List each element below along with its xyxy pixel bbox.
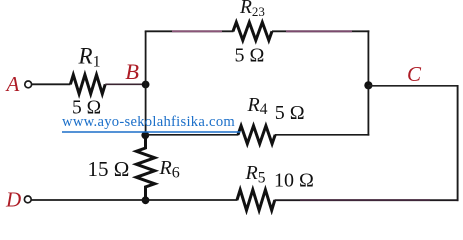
wire tint segment bbox=[286, 30, 352, 32]
watermark underline bbox=[62, 131, 241, 133]
svg-text:C: C bbox=[407, 62, 422, 86]
resistor R5 bbox=[237, 190, 275, 211]
svg-text:D: D bbox=[5, 187, 21, 211]
wire right corner down to C bbox=[367, 30, 369, 85]
svg-text:10 Ω: 10 Ω bbox=[274, 170, 314, 192]
wire B vertical bbox=[145, 31, 147, 135]
svg-text:5 Ω: 5 Ω bbox=[235, 44, 265, 66]
svg-text:A: A bbox=[5, 72, 20, 96]
wire C to right edge bbox=[368, 85, 458, 87]
wire top left to R23 bbox=[145, 30, 234, 32]
resistor R4 bbox=[238, 126, 275, 144]
svg-text:www.ayo-sekolahfisika.com: www.ayo-sekolahfisika.com bbox=[62, 114, 235, 130]
resistor R1 bbox=[70, 75, 105, 94]
svg-text:R23: R23 bbox=[239, 0, 265, 19]
node junction at B lower bbox=[141, 131, 149, 139]
wire R23 to right corner bbox=[272, 30, 369, 32]
resistor R23 bbox=[233, 22, 272, 40]
wire R4 to right vertical bbox=[275, 134, 369, 136]
node C junction bbox=[364, 81, 372, 89]
terminal A bbox=[25, 81, 32, 88]
wire D to R5 bbox=[31, 199, 237, 201]
node B junction bbox=[142, 81, 150, 89]
wire R5 to right corner bbox=[275, 199, 459, 201]
wire C down to R4 branch bbox=[367, 85, 369, 135]
svg-text:5 Ω: 5 Ω bbox=[275, 102, 305, 124]
resistor R6 bbox=[136, 135, 154, 200]
wire R1 to B bbox=[105, 83, 145, 85]
wire right edge vertical bbox=[457, 85, 459, 201]
wire tint segment bbox=[172, 30, 222, 32]
node junction R6 bottom bbox=[142, 196, 150, 204]
svg-text:B: B bbox=[125, 59, 139, 84]
terminal D bbox=[24, 196, 31, 203]
wire A to R1 bbox=[32, 83, 71, 85]
wire lower B to R4 bbox=[145, 134, 238, 136]
svg-text:15 Ω: 15 Ω bbox=[88, 157, 130, 181]
wire tint segment bbox=[300, 199, 430, 201]
